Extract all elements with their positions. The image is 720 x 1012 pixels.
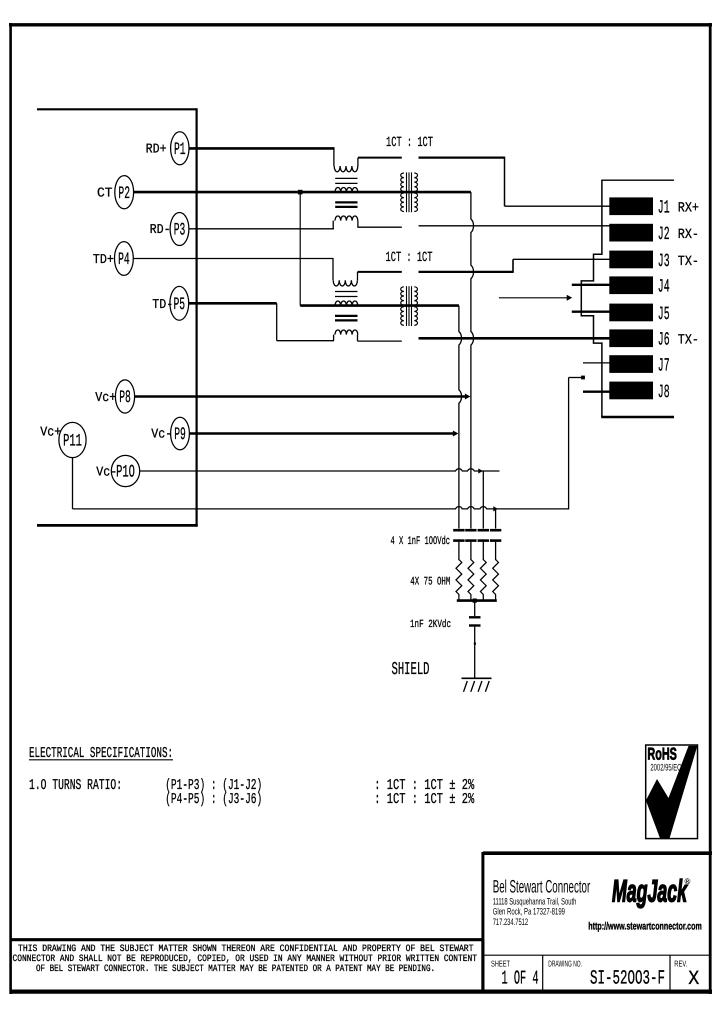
svg-text:P2: P2 bbox=[118, 184, 130, 204]
choke L2 winding 2 (CT) bbox=[335, 301, 358, 306]
wire T2 secondary bottom to J6 (TX-) bbox=[419, 337, 610, 340]
wire choke L1 to T1 primary bottom bbox=[358, 226, 402, 228]
svg-text:SI-52OO3-F: SI-52OO3-F bbox=[590, 967, 665, 990]
svg-text:OF BEL STEWART CONNECTOR. THE: OF BEL STEWART CONNECTOR. THE SUBJECT MA… bbox=[36, 963, 435, 974]
svg-text:MagJack: MagJack bbox=[612, 874, 688, 909]
choke L1 winding 3 (RD-) bbox=[335, 216, 358, 221]
choke L1 core bbox=[335, 177, 357, 179]
wire TX center tap down to capacitor C1 (hops) bbox=[459, 306, 462, 529]
choke L2 winding 1 (TD+) bbox=[333, 280, 357, 286]
svg-text:TX-: TX- bbox=[678, 333, 699, 349]
pin P4 bbox=[115, 242, 134, 276]
svg-text:CT: CT bbox=[97, 187, 113, 202]
RoHS logo box bbox=[646, 745, 698, 839]
connector J outline bottom bbox=[601, 416, 674, 418]
wire TX center tap through choke L2 winding 2 bbox=[300, 304, 459, 307]
svg-text:: 1CT : 1CT ± 2%: : 1CT : 1CT ± 2% bbox=[374, 791, 475, 808]
svg-text:Vc-: Vc- bbox=[151, 428, 172, 443]
svg-text:DRAWING NO.: DRAWING NO. bbox=[548, 958, 582, 968]
svg-text:http://www.stewartconnector.co: http://www.stewartconnector.com bbox=[588, 920, 702, 932]
choke L2 core bbox=[335, 291, 358, 293]
wire choke L2 to T2 primary bottom bbox=[358, 340, 402, 342]
pin P5 bbox=[170, 286, 189, 320]
svg-text:J4: J4 bbox=[658, 277, 670, 298]
svg-text:P5: P5 bbox=[174, 295, 186, 315]
svg-text:RoHS: RoHS bbox=[647, 744, 677, 763]
svg-text:RD-: RD- bbox=[150, 223, 171, 238]
website url bbox=[588, 920, 702, 932]
pin P1 bbox=[171, 132, 189, 165]
transformer T2 bbox=[401, 287, 404, 305]
wire choke L1 to transformer T1 primary top bbox=[358, 157, 402, 159]
svg-text:Bel Stewart Connector: Bel Stewart Connector bbox=[493, 876, 591, 896]
capacitor C4 bbox=[490, 529, 501, 532]
wire P11 (Vc+) down and right (hops) bbox=[72, 458, 74, 509]
svg-text:J1: J1 bbox=[658, 198, 670, 219]
capacitor C1 bbox=[453, 529, 464, 532]
wire up to J7/J8 tie bbox=[568, 378, 570, 510]
svg-text:Vc-: Vc- bbox=[96, 465, 117, 480]
svg-text:1 OF 4: 1 OF 4 bbox=[502, 967, 539, 989]
disclaimer box bbox=[10, 938, 484, 941]
resistor R4 bbox=[493, 560, 499, 601]
wire P8 (Vc+) to RX tap bbox=[135, 395, 468, 397]
svg-text:REV.: REV. bbox=[674, 958, 687, 968]
connector P outline (left bracket) bbox=[37, 108, 197, 110]
pin P9 bbox=[171, 417, 190, 450]
connector pad J4 bbox=[609, 276, 653, 294]
svg-text:TD+: TD+ bbox=[93, 253, 114, 268]
svg-text:J5: J5 bbox=[658, 304, 670, 325]
wire junction down to capacitor C3 bbox=[482, 471, 484, 529]
wire P4 to choke L2 bbox=[133, 258, 333, 260]
wire P9 (Vc-) to TX tap bbox=[189, 432, 456, 434]
svg-text:®: ® bbox=[685, 877, 691, 886]
svg-text:J6: J6 bbox=[658, 330, 670, 351]
choke L1 winding 1 (RD+) bbox=[334, 166, 358, 172]
svg-text:TX-: TX- bbox=[678, 254, 699, 270]
pin P3 bbox=[170, 213, 189, 246]
svg-text:(P4-P5) : (J3-J6): (P4-P5) : (J3-J6) bbox=[165, 791, 262, 808]
svg-text:RX-: RX- bbox=[678, 227, 699, 243]
svg-text:J7: J7 bbox=[658, 356, 670, 377]
wire CT down to TX center tap bbox=[299, 192, 301, 306]
svg-text:1CT : 1CT: 1CT : 1CT bbox=[386, 135, 433, 151]
resistor R1 bbox=[456, 560, 462, 601]
wire P1 to choke L1 bbox=[189, 147, 334, 150]
resistor R2 bbox=[468, 560, 474, 601]
connector pad J5 bbox=[609, 304, 653, 322]
connector pad J7 bbox=[609, 355, 653, 373]
svg-text:X: X bbox=[688, 968, 699, 991]
RoHS logo text bbox=[647, 744, 677, 763]
svg-text:1nF 2KVdc: 1nF 2KVdc bbox=[410, 619, 451, 631]
connector J outline top bbox=[602, 179, 674, 181]
capacitor C3 bbox=[478, 529, 489, 532]
choke L2 winding 3 (TD-) bbox=[335, 330, 358, 335]
svg-text:2002/95/EC: 2002/95/EC bbox=[650, 762, 681, 773]
capacitor C5 1nF 2KVdc bbox=[469, 616, 481, 618]
transformer T1 bbox=[401, 173, 404, 191]
node junction to capacitor C4 bbox=[493, 506, 498, 511]
node: CT junction to TX choke bbox=[298, 190, 303, 195]
pin P10 bbox=[111, 455, 139, 486]
wire CT (P2) through choke L1 winding 2 and T1 center tap bbox=[133, 191, 471, 194]
ground symbol (chassis) bbox=[462, 677, 492, 679]
pin P8 bbox=[115, 380, 134, 413]
svg-text:4 X 1nF 1OOVdc: 4 X 1nF 1OOVdc bbox=[391, 535, 451, 548]
choke L1 winding 2 (CT) bbox=[335, 188, 358, 193]
svg-text:P3: P3 bbox=[174, 221, 186, 241]
svg-text:4X 75 OHM: 4X 75 OHM bbox=[410, 575, 450, 588]
wire T2 secondary top to J3 bbox=[419, 271, 514, 273]
wire choke L2 to transformer T2 primary top bbox=[358, 271, 402, 273]
capacitor C2 bbox=[465, 529, 476, 532]
wire J4 stub bbox=[572, 284, 610, 286]
pin P2 bbox=[115, 176, 134, 209]
wire T1 secondary top to J1 (RX+) bbox=[419, 156, 505, 158]
connector pad J2 bbox=[609, 224, 653, 242]
svg-text:1CT : 1CT: 1CT : 1CT bbox=[386, 250, 433, 266]
resistor bottom bus bbox=[457, 599, 497, 602]
svg-text:1.O TURNS RATIO:: 1.O TURNS RATIO: bbox=[29, 777, 122, 794]
svg-text:J8: J8 bbox=[658, 382, 670, 403]
connector pad J6 bbox=[609, 329, 653, 347]
node J7/J8 tie dot bbox=[581, 376, 585, 380]
svg-text:P4: P4 bbox=[118, 250, 130, 270]
svg-text:Vc+: Vc+ bbox=[95, 391, 116, 406]
connector pad J8 bbox=[609, 382, 653, 400]
svg-text:J3: J3 bbox=[658, 251, 670, 272]
resistor R3 bbox=[480, 560, 486, 601]
svg-text:SHIELD: SHIELD bbox=[392, 660, 430, 680]
node on shield wire bbox=[474, 643, 476, 645]
svg-text:P11: P11 bbox=[63, 432, 82, 452]
wire T1 secondary bottom to J2 (RX-) bbox=[419, 225, 610, 227]
svg-text:TD-: TD- bbox=[152, 298, 173, 313]
wire P3 to choke L1 winding 3 bbox=[189, 228, 334, 230]
svg-text:P9: P9 bbox=[174, 425, 186, 445]
svg-text:717.234.7512: 717.234.7512 bbox=[493, 916, 528, 927]
wire J5 stub bbox=[572, 311, 610, 313]
connector J outline left / J3-J4-J5 tie zigzag bbox=[581, 180, 602, 417]
page border frame bbox=[9, 23, 712, 26]
wire J8 stub bbox=[583, 391, 610, 393]
connector pad J1 bbox=[609, 197, 653, 215]
MagJack logo bbox=[612, 874, 688, 909]
pin P11 bbox=[59, 422, 86, 457]
svg-text:P1: P1 bbox=[174, 140, 186, 160]
stub wire with arrow into J4/J5 tie bbox=[499, 297, 569, 299]
wire RX center tap down to capacitor C2 (hops) bbox=[471, 192, 474, 528]
svg-text:J2: J2 bbox=[658, 224, 670, 245]
wire P10 (Vc-) with hops bbox=[140, 469, 500, 471]
connector pad J3 bbox=[609, 251, 653, 269]
wire J7 stub bbox=[583, 362, 610, 364]
svg-text:P8: P8 bbox=[119, 388, 131, 408]
svg-text:RX+: RX+ bbox=[678, 201, 699, 217]
svg-text:RD+: RD+ bbox=[146, 143, 167, 158]
svg-text:Vc+: Vc+ bbox=[40, 425, 61, 440]
title block box bbox=[483, 851, 712, 855]
svg-text:P1O: P1O bbox=[116, 463, 135, 483]
RoHS checkmark bbox=[646, 746, 698, 839]
wire P5 jog to choke L2 winding 3 bbox=[189, 302, 277, 305]
